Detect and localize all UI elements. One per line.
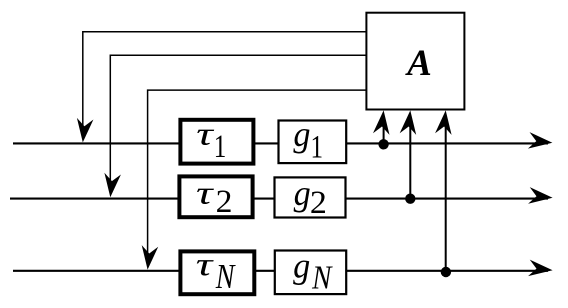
block A (adaptation): [366, 13, 464, 110]
node: junction dot on line 3: [441, 267, 451, 277]
label tau1: [196, 115, 214, 152]
arrow: tap 1 into A: [373, 110, 392, 135]
arrow: output line 3: [528, 260, 553, 279]
arrow: feedback 1 into line 1: [75, 118, 94, 143]
wire: tap 2 up to block A: [409, 120, 411, 199]
arrow: tap 2 into A: [400, 110, 419, 135]
block tauN: [180, 251, 254, 294]
wire: feedback 3 from block A to line 3: [148, 90, 366, 255]
label g1: [293, 114, 310, 154]
block g1: [279, 121, 347, 164]
svg-text:g: g: [293, 114, 310, 154]
block g2: [275, 177, 346, 217]
wire: input line 1 (top horizontal): [13, 142, 548, 144]
wire: feedback 1 from block A to line 1: [83, 32, 366, 128]
block gN: [275, 251, 346, 295]
svg-text:N: N: [311, 258, 333, 296]
svg-text:1: 1: [214, 129, 227, 165]
svg-text:1: 1: [310, 129, 323, 165]
label g2: [294, 173, 311, 213]
label A: [405, 43, 432, 84]
arrow: feedback 3 into line 3: [139, 245, 158, 270]
arrow: feedback 2 into line 2: [102, 173, 121, 198]
wire: tap 1 up to block A: [383, 120, 385, 143]
block tau1: [180, 120, 253, 164]
svg-text:g: g: [293, 246, 310, 286]
node: junction dot on line 1: [378, 139, 388, 149]
label tauN: [196, 245, 214, 282]
svg-text:τ: τ: [196, 245, 214, 282]
arrow: output line 1: [528, 132, 553, 151]
wire: tap 3 up to block A: [445, 120, 447, 271]
wire: input line 2 (middle horizontal): [10, 198, 548, 200]
svg-text:τ: τ: [196, 115, 214, 152]
wire: input line 3 (bottom horizontal): [13, 270, 548, 272]
block tau2: [179, 176, 252, 217]
svg-text:2: 2: [216, 183, 233, 220]
arrow: output line 2: [528, 187, 553, 206]
wire: feedback 2 from block A to line 2: [110, 55, 365, 183]
svg-text:g: g: [294, 173, 311, 213]
svg-text:2: 2: [310, 184, 327, 220]
svg-text:A: A: [405, 43, 432, 84]
svg-text:τ: τ: [196, 174, 214, 211]
arrow: tap 3 into A: [435, 110, 454, 135]
label gN: [293, 246, 310, 286]
svg-text:N: N: [215, 257, 236, 296]
label tau2: [196, 174, 214, 211]
node: junction dot on line 2: [405, 194, 415, 204]
